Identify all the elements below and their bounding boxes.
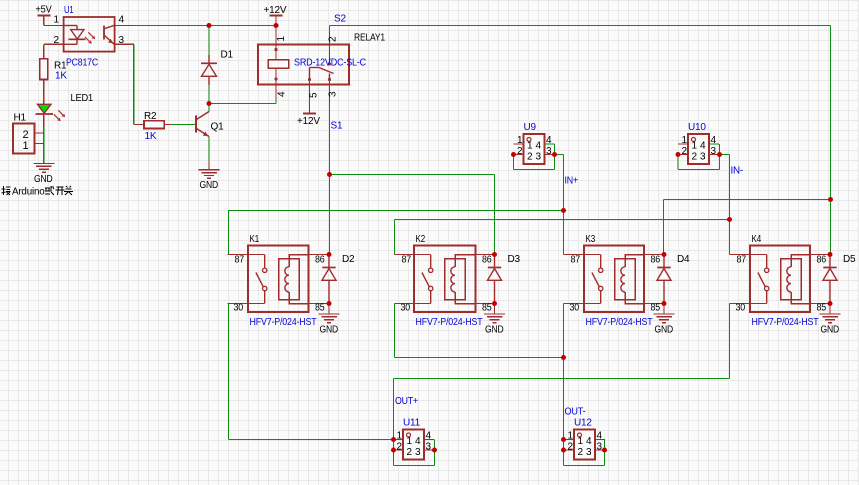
K1 labels bbox=[234, 234, 326, 328]
ground under H1 bbox=[33, 163, 54, 173]
svg-text:LED1: LED1 bbox=[71, 93, 94, 104]
svg-text:30: 30 bbox=[234, 303, 244, 314]
GND label bbox=[485, 324, 504, 335]
net label IN- bbox=[731, 166, 744, 177]
svg-text:K3: K3 bbox=[586, 234, 596, 245]
svg-text:86: 86 bbox=[482, 255, 492, 266]
svg-text:4: 4 bbox=[119, 15, 125, 26]
GND label bbox=[34, 174, 53, 185]
svg-text:HFV7-P/024-HST: HFV7-P/024-HST bbox=[416, 317, 483, 328]
svg-text:4: 4 bbox=[700, 141, 706, 152]
wire OUT- branch: K3 pin30 down to U12 bbox=[563, 304, 565, 451]
wire node to relay pin4 bbox=[209, 100, 276, 104]
net label OUT+ bbox=[395, 396, 418, 407]
LED1 label bbox=[71, 93, 94, 104]
svg-text:K1: K1 bbox=[250, 234, 260, 245]
svg-text:OUT-: OUT- bbox=[565, 407, 586, 418]
svg-text:4: 4 bbox=[597, 431, 603, 442]
wire OUT+ branch: K4 pin30 to U11 bbox=[394, 304, 730, 451]
note text bbox=[2, 186, 74, 197]
power +5V bbox=[36, 5, 52, 16]
wire IN+ branch to K1 pin87 bbox=[229, 211, 564, 255]
svg-text:86: 86 bbox=[817, 255, 827, 266]
svg-text:HFV7-P/024-HST: HFV7-P/024-HST bbox=[250, 317, 317, 328]
wire U12 loop pins 2-3-4 bbox=[564, 440, 605, 466]
wire LED1 to GND through H1 pins bbox=[43, 114, 45, 163]
svg-text:U11: U11 bbox=[403, 418, 421, 429]
svg-text:85: 85 bbox=[651, 303, 661, 314]
transistor Q1 bbox=[196, 112, 209, 137]
wire R1 to LED1 bbox=[43, 80, 45, 105]
wire IN- branch to K2 pin87 bbox=[395, 220, 730, 255]
svg-text:U12: U12 bbox=[574, 418, 592, 429]
connector U11 bbox=[393, 430, 434, 460]
svg-text:U1: U1 bbox=[64, 5, 74, 16]
diode D2 bbox=[322, 255, 336, 304]
svg-text:HFV7-P/024-HST: HFV7-P/024-HST bbox=[586, 317, 653, 328]
svg-text:3: 3 bbox=[700, 152, 706, 163]
wire U1 pin4 to D1 junction and +12V node bbox=[134, 25, 277, 27]
svg-text:GND: GND bbox=[821, 324, 840, 335]
svg-text:IN-: IN- bbox=[731, 166, 744, 177]
svg-text:+12V: +12V bbox=[297, 116, 320, 127]
GND label bbox=[200, 180, 219, 191]
svg-text:86: 86 bbox=[651, 255, 661, 266]
svg-text:3: 3 bbox=[586, 447, 592, 458]
wire D1 branch down bbox=[208, 26, 210, 104]
svg-text:3: 3 bbox=[711, 146, 717, 157]
RELAY1 labels bbox=[294, 33, 386, 69]
relay K4 HFV7-P/024-HST bbox=[730, 246, 831, 313]
D5 label bbox=[843, 254, 856, 265]
U9 labels bbox=[517, 122, 552, 163]
svg-text:85: 85 bbox=[315, 303, 325, 314]
svg-text:GND: GND bbox=[320, 324, 339, 335]
wire IN- net from U10 down bbox=[720, 155, 730, 255]
svg-text:D1: D1 bbox=[221, 50, 234, 61]
R2 labels bbox=[144, 111, 157, 142]
svg-text:1: 1 bbox=[407, 436, 413, 447]
wire U11 loop pins 2-3-4 bbox=[394, 440, 435, 466]
svg-text:5: 5 bbox=[309, 92, 320, 98]
wire OUT- net: K2 pin30 to U12 bbox=[395, 304, 564, 358]
wire IN+ net from U9 down bbox=[555, 155, 564, 255]
svg-text:4: 4 bbox=[277, 91, 288, 97]
relay pin numbers bbox=[276, 36, 339, 99]
GND label bbox=[821, 324, 840, 335]
svg-text:87: 87 bbox=[737, 255, 747, 266]
svg-text:GND: GND bbox=[200, 180, 219, 191]
resistor R1 1K bbox=[40, 59, 48, 80]
U12 labels bbox=[568, 418, 603, 459]
ground under D2 bbox=[319, 304, 340, 323]
svg-text:K4: K4 bbox=[752, 234, 762, 245]
relay K2 HFV7-P/024-HST bbox=[395, 246, 495, 313]
svg-text:D3: D3 bbox=[508, 254, 521, 265]
connector U10 bbox=[678, 134, 719, 164]
svg-text:IN+: IN+ bbox=[565, 176, 579, 187]
wire OUT+ net: K1 pin30 to U11 bbox=[229, 304, 394, 440]
GND label bbox=[655, 324, 674, 335]
svg-text:R2: R2 bbox=[144, 111, 157, 122]
svg-text:1K: 1K bbox=[145, 131, 157, 142]
wire U1 pin2 to R1 bbox=[43, 44, 45, 58]
svg-text:4: 4 bbox=[426, 431, 432, 442]
wire U1 pin3 to R2 bbox=[134, 44, 136, 124]
wire Q1 collector bbox=[208, 104, 210, 113]
svg-text:30: 30 bbox=[736, 303, 746, 314]
svg-text:2: 2 bbox=[328, 36, 339, 42]
svg-text:3: 3 bbox=[426, 442, 432, 453]
connector U12 bbox=[564, 430, 605, 460]
svg-text:2: 2 bbox=[568, 442, 574, 453]
svg-text:3: 3 bbox=[546, 146, 552, 157]
svg-text:+12V: +12V bbox=[264, 5, 287, 16]
D4 label bbox=[677, 254, 690, 265]
svg-text:2: 2 bbox=[682, 146, 688, 157]
svg-text:H1: H1 bbox=[14, 113, 27, 124]
svg-text:3: 3 bbox=[597, 442, 603, 453]
svg-text:2: 2 bbox=[54, 35, 60, 46]
wire S1 branch to K2 coil bbox=[330, 175, 495, 255]
diode D5 bbox=[823, 255, 837, 304]
svg-text:4: 4 bbox=[546, 135, 552, 146]
ground under D4 bbox=[654, 304, 675, 323]
wire S2 branch to K3 coil bbox=[664, 200, 831, 255]
D2 label bbox=[342, 254, 355, 265]
svg-text:4: 4 bbox=[415, 436, 421, 447]
svg-text:3: 3 bbox=[536, 152, 542, 163]
svg-text:GND: GND bbox=[655, 324, 674, 335]
wire +5V to U1 pin1 bbox=[43, 17, 45, 26]
svg-text:3: 3 bbox=[415, 447, 421, 458]
power +12V top bbox=[264, 5, 287, 26]
D3 label bbox=[508, 254, 521, 265]
svg-text:2: 2 bbox=[407, 447, 413, 458]
svg-text:1: 1 bbox=[578, 436, 584, 447]
K4 labels bbox=[736, 234, 827, 328]
net label S2 bbox=[334, 14, 346, 25]
svg-text:S1: S1 bbox=[331, 120, 343, 131]
svg-text:2: 2 bbox=[692, 152, 698, 163]
svg-text:2: 2 bbox=[578, 447, 584, 458]
svg-text:1: 1 bbox=[23, 140, 29, 152]
diode D1 bbox=[201, 55, 217, 85]
svg-text:OUT+: OUT+ bbox=[395, 396, 418, 407]
op-amp U1 optocoupler PC817C bbox=[64, 17, 115, 52]
H1 labels bbox=[14, 113, 29, 153]
relay K3 HFV7-P/024-HST bbox=[564, 246, 665, 313]
R1 labels bbox=[54, 61, 67, 82]
svg-text:1: 1 bbox=[682, 135, 688, 146]
svg-text:D4: D4 bbox=[677, 254, 690, 265]
svg-text:D5: D5 bbox=[843, 254, 856, 265]
svg-text:GND: GND bbox=[485, 324, 504, 335]
wire U9 loop pins 2-3-4 bbox=[514, 144, 555, 170]
wire R1 top green segment bbox=[43, 44, 45, 48]
svg-text:3: 3 bbox=[328, 91, 339, 97]
svg-text:1: 1 bbox=[276, 36, 287, 42]
wire S2 net: relay pin2 to K4 coil column bbox=[330, 26, 831, 255]
ground under Q1 bbox=[199, 161, 220, 179]
svg-text:30: 30 bbox=[401, 303, 411, 314]
svg-text:85: 85 bbox=[482, 303, 492, 314]
svg-text:+5V: +5V bbox=[36, 5, 52, 16]
svg-text:1: 1 bbox=[397, 431, 403, 442]
Q1 label bbox=[211, 122, 225, 133]
net label IN+ bbox=[565, 176, 579, 187]
K3 labels bbox=[570, 234, 661, 328]
connector H1 bbox=[13, 124, 44, 154]
svg-text:30: 30 bbox=[570, 303, 580, 314]
U11 labels bbox=[397, 418, 432, 459]
ground under D5 bbox=[820, 304, 841, 323]
svg-text:U10: U10 bbox=[688, 122, 706, 133]
svg-text:PC817C: PC817C bbox=[66, 58, 98, 69]
svg-text:1: 1 bbox=[692, 141, 698, 152]
svg-text:HFV7-P/024-HST: HFV7-P/024-HST bbox=[752, 317, 819, 328]
svg-text:3: 3 bbox=[119, 35, 125, 46]
U10 labels bbox=[682, 122, 717, 163]
wire U10 loop pins 2-3-4 bbox=[678, 144, 720, 170]
wire S1 net: relay pin3 down to K1 coil bbox=[329, 104, 331, 255]
svg-text:2: 2 bbox=[517, 146, 523, 157]
svg-text:2: 2 bbox=[527, 152, 533, 163]
power +12V under relay pin5 bbox=[297, 114, 320, 128]
svg-text:U9: U9 bbox=[524, 122, 537, 133]
GND label bbox=[320, 324, 339, 335]
svg-text:1K: 1K bbox=[55, 71, 67, 82]
svg-text:4: 4 bbox=[536, 141, 542, 152]
svg-text:S2: S2 bbox=[334, 14, 346, 25]
svg-text:87: 87 bbox=[235, 255, 245, 266]
svg-text:4: 4 bbox=[711, 135, 717, 146]
svg-text:1: 1 bbox=[517, 135, 523, 146]
net label S1 bbox=[331, 120, 343, 131]
svg-text:1: 1 bbox=[568, 431, 574, 442]
svg-text:87: 87 bbox=[402, 255, 412, 266]
svg-text:SRD-12VDC-SL-C: SRD-12VDC-SL-C bbox=[294, 57, 367, 69]
net label OUT- bbox=[565, 407, 586, 418]
LED LED1 bbox=[36, 104, 66, 121]
svg-text:RELAY1: RELAY1 bbox=[354, 33, 386, 44]
svg-text:1: 1 bbox=[54, 15, 60, 26]
diode D3 bbox=[488, 255, 502, 304]
relay K1 HFV7-P/024-HST bbox=[228, 246, 330, 313]
svg-text:K2: K2 bbox=[416, 234, 426, 245]
svg-text:D2: D2 bbox=[342, 254, 355, 265]
svg-text:87: 87 bbox=[571, 255, 581, 266]
svg-text:4: 4 bbox=[586, 436, 592, 447]
U1 labels bbox=[54, 5, 125, 69]
diode D4 bbox=[657, 255, 671, 304]
D1 label bbox=[221, 50, 234, 61]
wire Q1 emitter to GND bbox=[208, 137, 210, 161]
wire R2 to Q1 base bbox=[172, 124, 196, 126]
svg-text:85: 85 bbox=[817, 303, 827, 314]
svg-text:1: 1 bbox=[527, 141, 533, 152]
resistor R2 1K bbox=[134, 121, 172, 129]
K2 labels bbox=[401, 234, 493, 328]
svg-text:Arduino: Arduino bbox=[12, 186, 45, 197]
svg-text:Q1: Q1 bbox=[211, 122, 225, 133]
svg-text:GND: GND bbox=[34, 174, 53, 185]
relay RELAY1 SRD-12VDC-SL-C bbox=[258, 26, 349, 114]
ground under D3 bbox=[484, 304, 505, 323]
connector U9 bbox=[514, 134, 555, 164]
svg-text:2: 2 bbox=[397, 442, 403, 453]
svg-text:86: 86 bbox=[315, 255, 325, 266]
U1 pin stubs bbox=[44, 26, 134, 59]
